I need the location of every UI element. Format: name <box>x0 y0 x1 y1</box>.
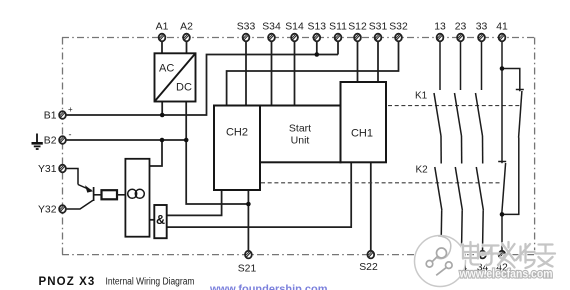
svg-text:S13: S13 <box>308 22 327 33</box>
AND gate U2 <box>154 205 166 238</box>
wire S12 to CH1 <box>357 41 359 82</box>
wire resistor to retrigger box <box>117 194 125 196</box>
terminal B1 <box>59 111 66 119</box>
wire CH2 pin to AND gate <box>167 190 222 215</box>
wire AC/DC - output to B2 <box>185 102 187 141</box>
svg-text:S14: S14 <box>285 22 304 33</box>
terminal S31 <box>375 34 382 42</box>
svg-text:PNOZ X3: PNOZ X3 <box>39 276 96 288</box>
retrigger unit box with circles <box>125 159 149 237</box>
transistor arrow head <box>85 185 93 192</box>
terminal S14 <box>291 34 298 42</box>
wire AND gate to CH1 <box>167 162 352 227</box>
node S21 junction <box>246 202 251 207</box>
wire A1 to AC/DC <box>161 41 163 53</box>
terminal labels <box>38 22 508 275</box>
terminal 33 <box>478 34 485 42</box>
svg-text:S22: S22 <box>359 262 378 273</box>
wire AC/DC + output to B1 <box>161 102 163 116</box>
node B2 end junction <box>184 138 189 143</box>
svg-text:K1: K1 <box>415 91 428 102</box>
svg-text:DC: DC <box>176 82 192 94</box>
resistor R1 <box>102 190 118 199</box>
wire B1 line to S13/S11 <box>67 55 339 116</box>
svg-text:13: 13 <box>434 22 446 33</box>
svg-text:33: 33 <box>476 22 488 33</box>
terminal Y32 <box>59 205 66 213</box>
svg-text:CH1: CH1 <box>351 128 373 140</box>
contact column 23-24 <box>455 41 463 252</box>
watermark chinese characters <box>463 242 555 268</box>
svg-text:S12: S12 <box>348 22 367 33</box>
AC/DC converter U1 <box>155 53 196 101</box>
node B1/ACDC junction <box>160 113 165 118</box>
contact column 13-14 <box>434 41 442 252</box>
junction dots <box>160 52 319 206</box>
terminals top row <box>0 0 1 1</box>
terminal S13 <box>313 34 320 42</box>
terminal S21 <box>245 251 252 259</box>
svg-text:23: 23 <box>455 22 467 33</box>
relay K2 mechanical dashed line <box>261 182 500 184</box>
wire B2 branch to S21 node <box>186 140 248 204</box>
wire S34 to Start Unit <box>271 41 273 106</box>
wire A2 to AC/DC <box>186 41 188 53</box>
node 41 branch top <box>500 66 505 71</box>
svg-text:Unit: Unit <box>291 135 310 147</box>
wire B2 line <box>67 139 187 141</box>
relay K1 mechanical dashed line <box>388 105 520 107</box>
terminal 24 <box>458 251 465 259</box>
svg-text:CH2: CH2 <box>226 127 248 139</box>
svg-text:41: 41 <box>496 22 508 33</box>
node 42 branch bottom <box>500 212 505 217</box>
node B2/retrigger junction <box>160 138 165 143</box>
svg-text:S31: S31 <box>369 22 388 33</box>
device boundary dash-dot border <box>62 38 535 255</box>
svg-text:B1: B1 <box>44 111 57 122</box>
svg-text:B2: B2 <box>44 136 57 147</box>
svg-text:Y32: Y32 <box>38 205 57 216</box>
transistor Q1 <box>67 169 94 210</box>
svg-text:S34: S34 <box>262 22 281 33</box>
svg-text:S11: S11 <box>329 22 347 33</box>
wire B2 branch to retrigger box <box>150 140 163 166</box>
svg-text:S33: S33 <box>237 22 256 33</box>
terminal 42 <box>499 251 506 259</box>
terminal 13 <box>437 34 444 42</box>
wire CH2 pin to S21 <box>247 190 249 252</box>
node S13 junction <box>315 52 320 57</box>
terminal Y31 <box>59 165 66 173</box>
wire transistor base to resistor <box>94 194 102 196</box>
wire S13 drop <box>316 41 318 55</box>
terminal S32 <box>395 34 402 42</box>
terminal 41 <box>499 34 506 42</box>
terminal A2 <box>183 34 190 42</box>
svg-text:Start: Start <box>289 123 311 135</box>
wire S33 to CH2 <box>245 41 247 106</box>
wire S14 to Start Unit <box>294 41 296 106</box>
channel box CH2 <box>214 106 260 191</box>
channel box CH1 <box>341 82 387 162</box>
svg-text:K2: K2 <box>416 165 429 176</box>
svg-text:AC: AC <box>159 63 174 75</box>
ground symbol <box>32 134 43 150</box>
start unit box <box>260 106 341 163</box>
wire S11 drop <box>337 41 339 55</box>
terminal S34 <box>268 34 275 42</box>
wire retrigger box to AND gate <box>150 219 155 221</box>
svg-text:Internal Wiring Diagram: Internal Wiring Diagram <box>106 277 195 288</box>
terminal B2 <box>59 136 66 144</box>
watermark logo circle <box>415 236 466 287</box>
terminal S33 <box>243 34 250 42</box>
svg-text:www.foundership.com: www.foundership.com <box>209 284 328 290</box>
terminal 14 <box>438 251 445 259</box>
svg-text:A2: A2 <box>180 22 193 33</box>
svg-text:-: - <box>69 130 72 140</box>
terminal 34 <box>479 251 486 259</box>
terminal A1 <box>159 34 166 42</box>
contact column 33-34 <box>476 41 484 252</box>
terminal S11 <box>335 34 342 42</box>
svg-text:S21: S21 <box>238 264 257 275</box>
svg-text:Y31: Y31 <box>38 164 57 175</box>
wire S32 to CH2 <box>227 41 399 106</box>
terminal S12 <box>354 34 361 42</box>
svg-text:&: & <box>156 213 165 227</box>
svg-text:S32: S32 <box>389 22 408 33</box>
contact column 41-42 NC with parallel branch <box>498 41 524 252</box>
terminal 23 <box>457 34 464 42</box>
wire CH1 to S22 <box>370 162 372 251</box>
svg-text:+: + <box>68 105 73 114</box>
svg-text:A1: A1 <box>156 22 169 33</box>
svg-text:www.elecfans.com: www.elecfans.com <box>459 267 553 281</box>
wire S31 to CH1 <box>377 41 379 82</box>
terminal S22 <box>367 251 374 259</box>
